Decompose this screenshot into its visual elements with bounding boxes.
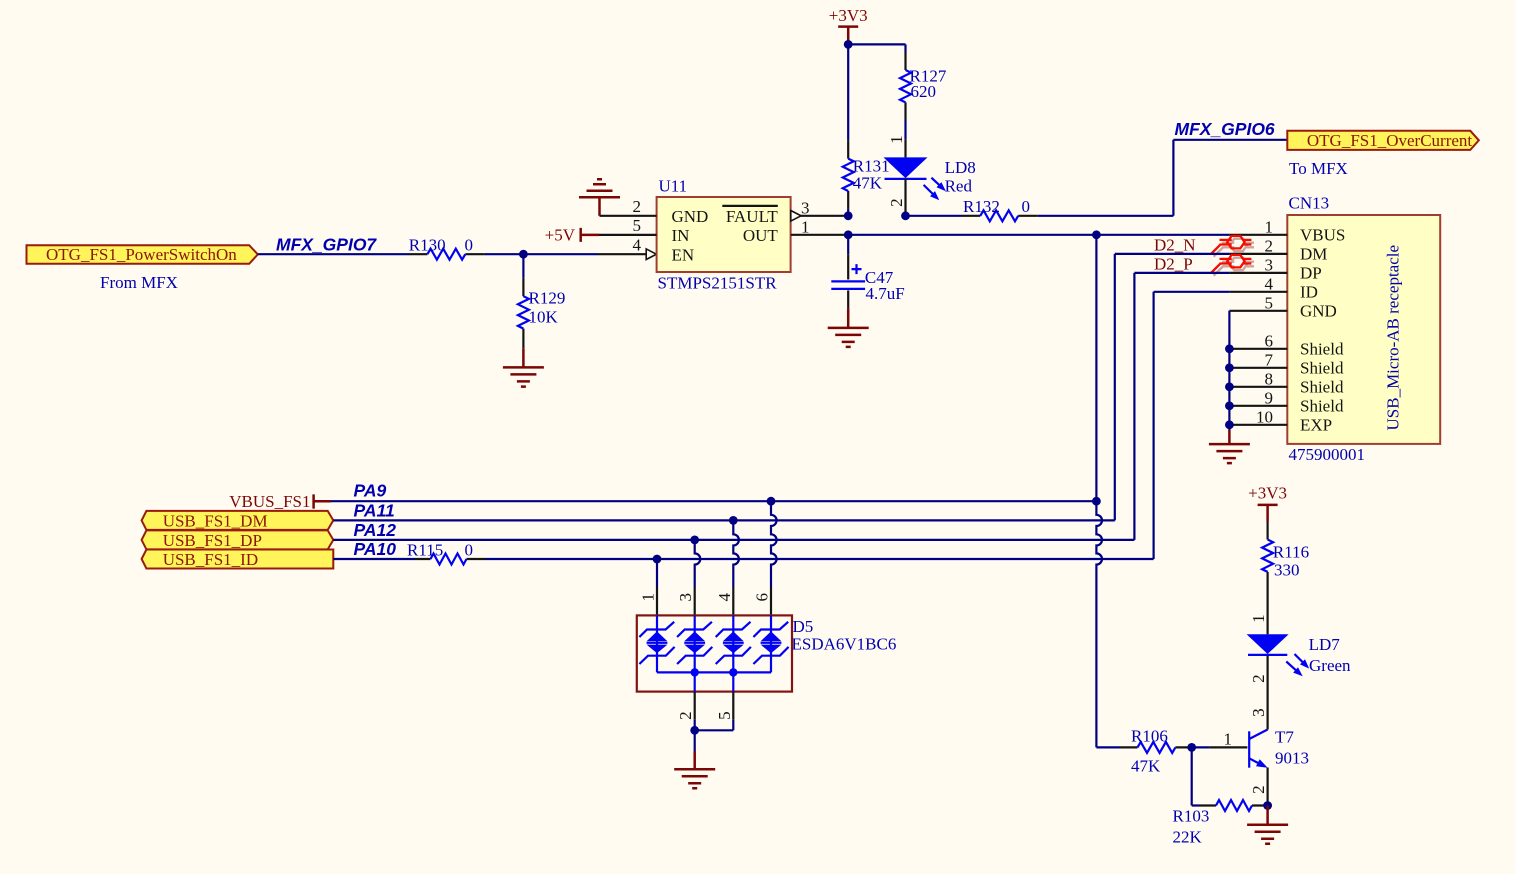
svg-text:VBUS_FS1: VBUS_FS1: [229, 492, 310, 511]
svg-text:EN: EN: [672, 246, 695, 265]
pin 1 VBUS stub: [1229, 234, 1287, 236]
resistor R116 body: [1262, 540, 1273, 572]
svg-text:7: 7: [1265, 350, 1274, 369]
svg-text:1: 1: [1265, 217, 1274, 236]
svg-text:Shield: Shield: [1300, 396, 1344, 415]
pin emitter wire: [1266, 768, 1268, 806]
node rail pin2: [691, 668, 699, 676]
wire GND pin 2: [600, 215, 657, 217]
svg-text:USB_FS1_ID: USB_FS1_ID: [163, 550, 258, 569]
svg-text:1: 1: [1249, 614, 1268, 623]
svg-text:5: 5: [1265, 293, 1274, 312]
wire R129 top stub: [522, 254, 524, 278]
svg-text:330: 330: [1274, 561, 1300, 580]
svg-text:1: 1: [639, 593, 658, 602]
svg-text:Red: Red: [945, 177, 973, 196]
wire down to R127: [904, 44, 906, 52]
pin FAULT output triangle: [791, 211, 801, 222]
svg-text:4: 4: [715, 593, 734, 602]
wire D5 ground join: [695, 720, 734, 731]
wire ID vertical: [1154, 292, 1230, 559]
wire D5 pin3 drop with hop: [695, 540, 701, 587]
svg-text:USB_FS1_DM: USB_FS1_DM: [163, 512, 268, 531]
node shield pin 6: [1225, 344, 1234, 353]
resistor R115 body: [431, 554, 467, 565]
wire PA10 row left: [333, 558, 415, 560]
diff pair directive shadow on DM: [1214, 239, 1254, 257]
svg-text:3: 3: [801, 198, 810, 217]
TVS diode 2: [677, 615, 712, 691]
ground below T7: [1247, 806, 1288, 844]
svg-text:Shield: Shield: [1300, 358, 1344, 377]
svg-text:3: 3: [1265, 256, 1274, 275]
svg-text:R103: R103: [1173, 807, 1210, 826]
capacitor C47 bottom pin: [847, 290, 849, 308]
resistor R106 pins: [1120, 746, 1192, 748]
connector CN13 body: [1287, 215, 1440, 444]
svg-text:1: 1: [887, 135, 906, 144]
svg-text:DP: DP: [1300, 264, 1322, 283]
svg-text:6: 6: [1265, 331, 1274, 350]
LED LD8 light arrows: [924, 178, 942, 196]
svg-text:5: 5: [715, 711, 734, 720]
node PA12 D5 pin3: [690, 536, 699, 545]
wire D5 pin4 drop with hops: [733, 520, 739, 587]
wire R131 to FAULT: [847, 209, 849, 216]
svg-text:Shield: Shield: [1300, 339, 1344, 358]
port flag USB_FS1_ID: [142, 550, 334, 569]
svg-text:47K: 47K: [853, 174, 883, 193]
svg-text:2: 2: [1249, 785, 1268, 794]
svg-text:LD7: LD7: [1309, 635, 1341, 654]
svg-text:5: 5: [633, 216, 642, 235]
svg-text:+3V3: +3V3: [1248, 483, 1287, 502]
TVS diode 3: [716, 615, 751, 691]
resistor R1 R130 pins: [409, 253, 485, 255]
svg-text:9: 9: [1265, 388, 1274, 407]
svg-text:T7: T7: [1275, 728, 1294, 747]
svg-text:OTG_FS1_PowerSwitchOn: OTG_FS1_PowerSwitchOn: [46, 245, 237, 264]
svg-text:IN: IN: [672, 226, 690, 245]
node D5 ground: [690, 726, 699, 735]
wire +3V3 node: [848, 41, 905, 45]
diode array D5 body: [637, 615, 792, 691]
diff pair directive shadow on DP: [1214, 258, 1254, 276]
node PA9 VBUS vertical: [1092, 497, 1101, 506]
svg-text:0: 0: [465, 540, 474, 559]
LED LD8 triangle: [884, 157, 928, 178]
pin OUT 1 wire: [791, 234, 848, 236]
pin 6 Shield stub: [1229, 348, 1287, 350]
pin stubs D5 bottom: [695, 692, 734, 720]
pin stubs D5 top: [657, 587, 771, 615]
TVS diode 4: [753, 615, 788, 672]
svg-text:PA9: PA9: [354, 481, 387, 501]
pin EN wire: [598, 253, 657, 255]
pin collector wire: [1266, 655, 1268, 729]
wire D5 pin1 drop: [656, 559, 658, 587]
resistor R116 pins: [1266, 522, 1268, 590]
wire DP vertical: [1134, 273, 1229, 540]
resistor R132 pins: [962, 215, 1038, 217]
wire R130 to EN: [485, 253, 598, 255]
svg-text:6: 6: [753, 593, 772, 602]
svg-text:MFX_GPIO6: MFX_GPIO6: [1175, 119, 1275, 139]
svg-text:2: 2: [676, 711, 695, 720]
capacitor C47 top pin: [847, 254, 849, 279]
svg-text:3: 3: [1249, 708, 1268, 717]
pin FAULT 3 wire: [791, 215, 848, 217]
svg-text:2: 2: [633, 197, 642, 216]
wire D5 pin6 drop with hops: [771, 501, 777, 587]
svg-text:GND: GND: [672, 207, 709, 226]
pin 9 Shield stub: [1229, 405, 1287, 407]
LED LD7 triangle: [1247, 634, 1289, 654]
svg-text:Green: Green: [1309, 656, 1351, 675]
ground below D5: [674, 751, 715, 788]
wire MFX_GPIO7 flag to R130: [258, 253, 409, 255]
svg-text:DM: DM: [1300, 245, 1327, 264]
resistor R103 body: [1216, 800, 1252, 811]
pin base T7: [1210, 746, 1248, 748]
svg-text:ID: ID: [1300, 282, 1318, 301]
ground below CN13 shields: [1209, 430, 1250, 463]
pin LD8 cathode: [904, 179, 906, 216]
svg-text:47K: 47K: [1131, 756, 1161, 775]
node +3V3 junction: [844, 40, 853, 49]
wire base: [1192, 746, 1210, 748]
svg-text:3: 3: [676, 593, 695, 602]
svg-text:620: 620: [911, 82, 937, 101]
diff pair directive on DP: [1211, 255, 1251, 273]
svg-text:CN13: CN13: [1289, 194, 1330, 213]
port flag USB_FS1_DM: [142, 511, 334, 530]
svg-text:OUT: OUT: [743, 226, 779, 245]
svg-text:2: 2: [887, 198, 906, 207]
resistor R129 body: [518, 296, 529, 328]
wire VBUS to R106: [1096, 746, 1120, 748]
capacitor C47 plus sign: [852, 264, 862, 274]
svg-text:ESDA6V1BC6: ESDA6V1BC6: [792, 634, 897, 653]
svg-text:OTG_FS1_OverCurrent: OTG_FS1_OverCurrent: [1307, 131, 1473, 150]
wire +3V3 to R131: [847, 44, 849, 140]
transistor T7 base bar: [1248, 731, 1250, 767]
svg-text:D2_P: D2_P: [1154, 255, 1193, 274]
op-amp U11 body STMPS2151STR: [657, 197, 791, 272]
svg-text:4.7uF: 4.7uF: [866, 284, 905, 303]
node R131 FAULT junction: [844, 211, 853, 220]
svg-text:R129: R129: [529, 289, 566, 308]
node base junction: [1187, 743, 1196, 752]
wire DM vertical: [1115, 254, 1230, 521]
svg-text:PA10: PA10: [354, 539, 397, 559]
wire FAULT net to R132: [906, 215, 963, 217]
node LD8 to FAULT: [901, 211, 910, 220]
resistor R127 pins: [904, 52, 906, 120]
node emitter ground: [1263, 801, 1272, 810]
resistor R131 body: [843, 159, 854, 191]
wire PA11 row: [333, 519, 1115, 521]
svg-text:0: 0: [465, 236, 474, 255]
wire ground drop: [694, 730, 696, 751]
svg-text:USB_FS1_DP: USB_FS1_DP: [163, 531, 262, 550]
ground below C47: [828, 308, 869, 347]
pin IN 5 wire: [599, 234, 657, 236]
svg-text:U11: U11: [659, 177, 688, 196]
svg-text:9013: 9013: [1275, 749, 1309, 768]
LED LD8 cathode bar: [885, 178, 927, 180]
LED LD7 cathode bar: [1248, 654, 1287, 656]
resistor R130 body: [427, 249, 465, 260]
svg-text:+3V3: +3V3: [829, 6, 868, 25]
node shield pin 10: [1225, 420, 1234, 429]
node PA11 D5 pin4: [729, 516, 738, 525]
svg-text:From MFX: From MFX: [100, 273, 178, 292]
svg-text:R132: R132: [963, 197, 1000, 216]
resistor R131 pins: [847, 140, 849, 208]
resistor R115 pins: [415, 558, 486, 560]
transistor T7 collector: [1249, 730, 1267, 740]
transistor T7 emitter with arrow: [1249, 758, 1259, 763]
svg-text:10: 10: [1256, 407, 1273, 426]
node shield pin 8: [1225, 382, 1234, 391]
svg-text:2: 2: [1265, 237, 1274, 256]
svg-text:MFX_GPIO7: MFX_GPIO7: [276, 234, 377, 254]
svg-text:R106: R106: [1131, 727, 1168, 746]
svg-text:0: 0: [1022, 197, 1031, 216]
pin 3 DP stub: [1229, 272, 1287, 274]
node OUT VBUS junction: [1092, 230, 1101, 239]
pin LD8 anode: [904, 139, 906, 157]
wire GND shield vertical: [1228, 311, 1230, 430]
resistor R129 pins: [522, 278, 524, 348]
svg-text:10K: 10K: [529, 308, 559, 327]
wire R127 to LD8: [904, 120, 906, 139]
svg-text:8: 8: [1265, 369, 1274, 388]
TVS diode 1: [639, 615, 674, 672]
svg-text:4: 4: [1265, 274, 1274, 293]
port flag OTG_FS1_OverCurrent: [1287, 131, 1479, 150]
wire PA9 VBUS row: [331, 500, 1096, 502]
svg-text:D5: D5: [793, 617, 814, 636]
diff pair directive on DM: [1211, 236, 1251, 254]
pin EN input triangle: [646, 249, 656, 260]
port flag OTG_FS1_PowerSwitchOn: [27, 245, 258, 264]
svg-text:VBUS: VBUS: [1300, 225, 1345, 244]
resistor R132 body: [980, 210, 1018, 221]
wire D5 common rail: [657, 671, 771, 673]
LED LD7 light arrows: [1286, 654, 1305, 672]
pin LD7 anode: [1266, 590, 1268, 635]
ground inverted at U11 GND pin: [579, 179, 620, 216]
node junction R129 tap: [519, 250, 528, 259]
svg-text:STMPS2151STR: STMPS2151STR: [658, 273, 778, 292]
svg-text:FAULT: FAULT: [726, 207, 779, 226]
pin 10 EXP stub: [1229, 424, 1287, 426]
svg-text:22K: 22K: [1173, 827, 1203, 846]
svg-text:PA12: PA12: [354, 520, 397, 540]
node PA10 D5 pin1: [653, 555, 662, 564]
wire VBUS vertical with hops: [1096, 235, 1102, 748]
pin 4 ID stub: [1229, 291, 1287, 293]
ground below R129: [503, 348, 544, 386]
node PA9 D5 pin6: [767, 497, 776, 506]
wire OUT net: [848, 234, 1229, 236]
pin 5 GND stub: [1229, 310, 1287, 312]
pin 2 DM stub: [1229, 253, 1287, 255]
node rail pin5: [729, 668, 737, 676]
svg-text:R130: R130: [409, 236, 446, 255]
svg-text:EXP: EXP: [1300, 415, 1332, 434]
pin 7 Shield stub: [1229, 367, 1287, 369]
svg-text:R116: R116: [1273, 543, 1309, 562]
svg-text:1: 1: [1224, 730, 1233, 749]
wire PA10 row right: [486, 558, 1154, 560]
svg-text:4: 4: [633, 235, 642, 254]
svg-text:PA11: PA11: [354, 500, 395, 520]
capacitor C47 plates: [831, 281, 865, 289]
node shield pin 7: [1225, 363, 1234, 372]
svg-text:To MFX: To MFX: [1289, 159, 1348, 178]
resistor R103 pins: [1200, 804, 1268, 806]
wire R103 branch: [1192, 747, 1200, 805]
svg-text:+5V: +5V: [545, 225, 576, 244]
node shield pin 9: [1225, 401, 1234, 410]
svg-text:Shield: Shield: [1300, 377, 1344, 396]
svg-text:GND: GND: [1300, 301, 1337, 320]
wire PA12 row: [333, 539, 1134, 541]
svg-text:475900001: 475900001: [1289, 445, 1366, 464]
svg-text:LD8: LD8: [945, 158, 976, 177]
node C47 junction: [844, 230, 853, 239]
port flag USB_FS1_DP: [142, 530, 334, 549]
pin 8 Shield stub: [1229, 386, 1287, 388]
resistor R106 body: [1138, 742, 1176, 753]
svg-text:R115: R115: [407, 540, 443, 559]
wire C47 top: [847, 235, 849, 254]
resistor R127 body: [900, 70, 911, 102]
svg-text:USB_Micro-AB receptacle: USB_Micro-AB receptacle: [1384, 245, 1403, 431]
svg-text:2: 2: [1249, 674, 1268, 683]
wire R132 to OverCurrent flag: [1038, 140, 1288, 216]
svg-text:D2_N: D2_N: [1154, 235, 1196, 254]
